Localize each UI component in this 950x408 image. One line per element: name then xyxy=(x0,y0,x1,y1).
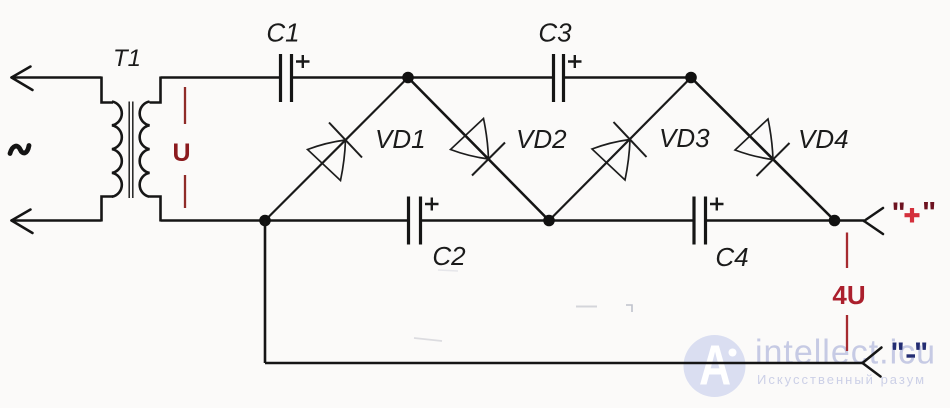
svg-text:": " xyxy=(892,197,906,230)
wire minus output horizontal xyxy=(265,362,863,365)
svg-text:VD2: VD2 xyxy=(516,124,567,154)
voltage marker U line top xyxy=(184,87,186,124)
svg-text:T1: T1 xyxy=(113,45,141,72)
wire diagonal VD2 xyxy=(408,78,549,221)
svg-text:": " xyxy=(891,337,905,370)
label "-" output xyxy=(891,337,929,370)
diode VD4 xyxy=(735,119,790,176)
node D bottom-middle junction xyxy=(543,215,555,227)
transformer T1 primary connection wires xyxy=(102,77,114,222)
wire top rail middle xyxy=(292,76,554,79)
transformer T1 core xyxy=(129,102,133,199)
svg-text:intellect.icu: intellect.icu xyxy=(755,334,935,372)
svg-text:VD3: VD3 xyxy=(659,123,710,153)
voltage marker 4U line top xyxy=(846,233,848,269)
wire top rail left xyxy=(161,76,281,79)
svg-text:C1: C1 xyxy=(266,18,299,48)
diode VD3 xyxy=(592,122,647,180)
output terminal arrow plus xyxy=(864,208,883,234)
wire top-left input xyxy=(12,76,102,79)
node B top-right junction xyxy=(685,72,697,84)
svg-text:VD4: VD4 xyxy=(798,124,849,154)
svg-text:": " xyxy=(922,197,936,230)
svg-text:C4: C4 xyxy=(715,242,748,272)
node A top-left junction xyxy=(402,72,414,84)
wire bottom rail left xyxy=(161,219,409,222)
wire diagonal VD1 xyxy=(265,78,408,221)
wire bottom-left input xyxy=(12,219,102,222)
wire to plus output xyxy=(835,219,865,222)
wire bottom rail right xyxy=(706,219,835,222)
svg-text:C3: C3 xyxy=(538,18,572,48)
watermark logo circle Ai xyxy=(684,333,746,397)
transformer T1 primary winding xyxy=(112,102,122,197)
transformer T1 secondary winding xyxy=(140,102,150,197)
svg-text:4U: 4U xyxy=(832,280,865,310)
voltage marker 4U line bottom xyxy=(846,315,848,351)
input terminal arrow top-left xyxy=(12,67,33,91)
transformer T1 secondary connection wires xyxy=(150,77,161,222)
svg-text:U: U xyxy=(172,139,190,167)
svg-text:Искусственный разум: Искусственный разум xyxy=(757,372,924,387)
wire minus output vertical xyxy=(264,221,267,364)
wire diagonal VD3 xyxy=(549,78,691,221)
faint artifact marks xyxy=(576,306,597,308)
voltage marker U line bottom xyxy=(184,175,186,208)
node C bottom-left junction xyxy=(259,215,271,227)
capacitor C2 xyxy=(409,197,439,245)
svg-text:A: A xyxy=(699,333,731,397)
node E bottom-right junction xyxy=(829,215,841,227)
svg-text:VD1: VD1 xyxy=(375,124,426,154)
wire top rail right xyxy=(564,76,692,79)
wire diagonal VD4 xyxy=(691,78,835,221)
diode VD2 xyxy=(451,119,506,176)
diode VD1 xyxy=(308,123,363,181)
AC source symbol ~ xyxy=(10,146,29,154)
capacitor C1 xyxy=(281,54,310,102)
output terminal arrow minus xyxy=(863,348,882,377)
wire bottom rail middle xyxy=(421,219,695,222)
capacitor C3 xyxy=(554,54,582,102)
label "+" output xyxy=(892,197,937,231)
input terminal arrow bottom-left xyxy=(12,210,33,234)
svg-text:C2: C2 xyxy=(432,241,466,271)
capacitor C4 xyxy=(694,197,724,245)
svg-text:": " xyxy=(914,337,928,370)
